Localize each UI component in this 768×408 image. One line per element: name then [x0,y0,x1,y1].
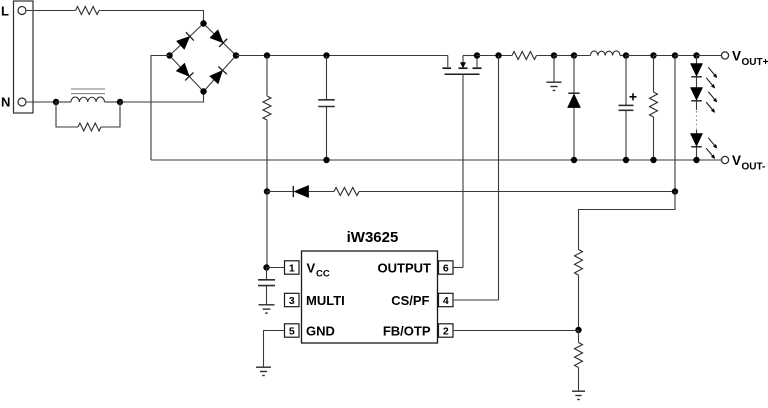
wire D7 down [696,101,698,110]
junction R5-bottom rail [650,157,656,163]
sense resistor R4 [512,52,537,60]
wire D6 to D7 [696,77,698,88]
wire node D down [326,56,328,100]
LED D7 [690,88,702,101]
wire to LED D8 [696,130,698,134]
VCC charge resistor R6 [334,188,359,196]
svg-text:2: 2 [443,325,449,337]
startup resistor R3 [263,96,271,120]
junction C1-bottom rail [323,157,329,163]
mosfet Q1 channel bars [443,67,482,69]
wire bridge left to bottom rail [151,56,170,161]
LED D6 emission arrows [706,67,717,88]
top rail wire node J to node K [626,55,654,57]
svg-text:L: L [1,4,9,19]
svg-text:6: 6 [443,262,449,274]
node F (Q1 source on rail) [474,52,480,58]
wire node B to bridge bottom [120,92,204,103]
wire node P to R8 [578,330,580,343]
node K (bleeder tap) [650,52,656,58]
output capacitor C2 [619,105,634,110]
bridge rectifier BR1 frame [170,24,237,92]
svg-text:1: 1 [289,262,295,274]
top rail wire D5 to L2 [574,55,591,57]
bridge diode D1 (left to top) [176,32,193,49]
top rail wire node L to node N2 [675,55,697,57]
ground GND3 [256,367,271,375]
fusible resistor R1 [76,7,100,15]
svg-text:GND: GND [306,324,335,339]
wire D9 to R6 [309,191,334,193]
wire R8 to ground [578,368,580,392]
node D (input cap tap) [323,52,329,58]
bleeder resistor R5 [650,92,658,117]
node G (CS tap) [495,52,501,58]
svg-text:MULTI: MULTI [306,293,345,308]
bridge diode D2 (top to right) [210,30,227,47]
pin 5 box [285,324,300,338]
wire node A to L1 [56,101,71,103]
wire R1 to bridge top [99,11,204,24]
wire D8 to bottom rail [696,147,698,160]
svg-text:OUTPUT: OUTPUT [378,261,432,276]
VCC charge diode D9 [293,185,308,197]
label FB/OTP pin [383,324,431,339]
label VOUT- [732,153,765,173]
LED string continuation dashed wire [696,111,698,129]
wire to LED1 [696,56,698,64]
node N2 (LED anode) [693,52,699,58]
mosfet Q1 source jog wire [463,55,477,57]
wire N to node A [26,101,56,103]
terminal VOUT- [721,156,728,163]
svg-text:OUT-: OUT- [742,162,766,173]
node J (output cap tap) [623,52,629,58]
bottom return rail wire [151,159,722,161]
svg-text:3: 3 [289,295,295,307]
EMI choke L1 [71,97,105,102]
node Q (VCC pin node) [263,264,269,270]
junction LED-bottom rail [693,157,699,163]
wire node L down to node M (crosses bottom rail) [674,56,676,192]
label VCC pin [307,261,330,280]
wire node J down [625,56,627,106]
wire pin5 to ground [264,331,285,368]
LED D8 emission arrows [706,138,717,159]
svg-text:V: V [732,153,741,168]
wire pin4 to CS line [453,299,499,301]
label OUTPUT pin [378,261,432,276]
wire node I to D5 cathode [573,56,575,94]
wire pin6 to gate line [453,267,463,269]
mosfet Q1 gate lead wire down to pin6 [462,74,464,267]
damping resistor R2 [78,123,101,131]
IC U1 title [347,229,399,246]
top rail wire node H to D5 [554,55,574,57]
wire R6 to node M [359,191,675,193]
wire R3 to VCC node (crosses bottom rail) [266,120,268,192]
terminal VOUT+ [721,52,728,59]
wire node H down to ground [553,56,555,83]
svg-text:CC: CC [316,269,330,280]
top rail wire to VOUT+ terminal [697,55,722,57]
wire node E to VCC node [266,192,268,268]
node P (FB node) [575,327,581,333]
node H (sense ground tap) [551,52,557,58]
top rail wire L2 to node J [620,55,626,57]
wire C2 to bottom rail [625,110,627,160]
junction C2-bottom rail [623,157,629,163]
input capacitor C1 [318,100,335,107]
output inductor L2 [591,51,621,56]
node L (feedback tap) [672,52,678,58]
ground GND4 [572,391,585,399]
LED D6 [690,64,702,77]
wire L1 to node B [105,101,121,103]
pin 6 box [439,261,454,275]
mosfet Q1 gate plate [445,73,480,75]
wire node M to divider [579,192,676,250]
wire node E to D9 [267,191,293,193]
svg-text:FB/OTP: FB/OTP [383,324,431,339]
bridge left node [166,52,172,58]
svg-text:OUT+: OUT+ [742,57,768,68]
LED D8 [690,134,702,147]
wire CS tap down to pin4 [498,56,500,301]
bridge top node [200,20,206,26]
bridge diode D4 (bottom to right) [210,66,227,83]
svg-text:5: 5 [289,325,295,337]
top rail wire Q1 to sense resistor [477,55,512,57]
bridge bottom node [200,88,206,94]
node E (VCC charge junction) [264,188,270,194]
label MULTI pin [306,293,345,308]
svg-text:CS/PF: CS/PF [391,293,429,308]
wire node Q to pin1 [267,267,285,269]
svg-text:4: 4 [443,295,449,307]
bridge diode D3 (left to bottom) [176,63,193,80]
wire R7 to node P [578,275,580,330]
feedback resistor R8 [575,343,583,368]
freewheel diode D5 [568,93,581,107]
wire node C down [266,56,268,97]
label GND pin [306,324,335,339]
svg-text:iW3625: iW3625 [347,229,399,246]
wire node K down [653,56,655,93]
AC input terminal block J1 [1,1,33,113]
svg-text:V: V [732,49,741,64]
ground GND1 [547,82,562,90]
feedback resistor R7 [575,250,583,276]
pin 4 box [439,293,454,307]
IC U1 body [302,251,438,343]
C2 plus sign [630,93,637,100]
top rail wire bridge to Q1 drain [236,55,448,57]
node I (freewheel diode tap) [571,52,577,58]
top rail wire node K to node L [654,55,676,57]
node A [53,99,59,105]
damping resistor R2 parallel path [56,102,120,127]
junction D5-bottom rail [571,157,577,163]
wire R5 to bottom rail [653,117,655,160]
node M (feedback junction) [672,188,678,194]
wire C1 to bottom rail [326,107,328,161]
node C (startup resistor tap) [264,52,270,58]
pin 3 box [285,293,300,307]
label VOUT+ [732,49,768,69]
label CS/PF pin [391,293,429,308]
ground GND2 [259,305,275,313]
VCC capacitor C3 [258,268,275,305]
mosfet Q1 body arrow [460,56,465,68]
bridge right node [233,52,239,58]
wire D5 anode to bottom rail [573,108,575,160]
svg-text:V: V [307,261,316,276]
svg-text:N: N [1,95,10,110]
pin 1 box [285,261,300,275]
node B [117,99,123,105]
wire R4 to node H [537,55,555,57]
LED D7 emission arrows [706,92,717,113]
wire pin2 to FB node [453,330,579,332]
mosfet Q1 drain lead [447,56,449,68]
choke core lines [71,89,105,94]
pin 2 box [439,324,454,338]
mosfet Q1 source lead [476,56,478,68]
wire L to R1 [26,10,76,12]
